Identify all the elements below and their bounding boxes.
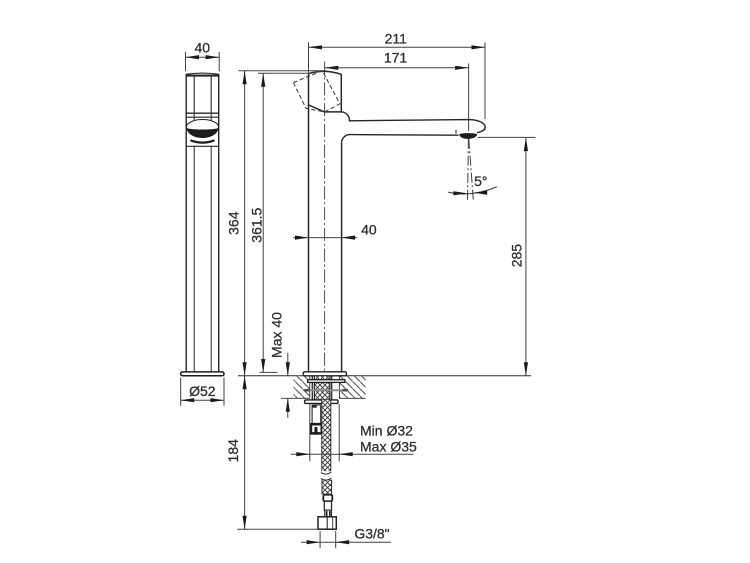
connection nut G3/8: [318, 517, 336, 529]
dim hole arrow right: [339, 452, 353, 456]
dim 364 arrow top: [243, 71, 247, 85]
grub screw tick right: [343, 389, 348, 392]
dim Max40 arrow up: [286, 398, 290, 412]
slot bar left: [326, 511, 328, 516]
svg-text:171: 171: [384, 50, 408, 66]
threaded shank with braid pattern: [315, 376, 330, 400]
shank tube right wall: [330, 376, 332, 400]
dim hole extension line right: [338, 404, 340, 461]
dim 364 arrow bottom: [243, 362, 247, 376]
hole edge left: [309, 376, 311, 398]
grub screw tick left: [304, 389, 310, 392]
dim 364 line: [244, 71, 246, 376]
grub screw line: [305, 389, 347, 391]
dim Max40 arrow down: [286, 362, 290, 376]
dim 171 arrow right: [455, 66, 469, 70]
deck surface line: [238, 375, 531, 377]
countertop bottom line left: [281, 397, 310, 399]
dim Ø52 line: [181, 399, 224, 401]
svg-text:361.5: 361.5: [248, 207, 264, 242]
svg-text:211: 211: [385, 30, 408, 46]
dim G38 arrow right: [336, 540, 350, 544]
spray axis tilted 5 deg line: [469, 139, 474, 202]
gasket washer under deck: [308, 380, 345, 383]
dim 285 line: [525, 138, 527, 376]
dim Ø52 arrow left: [181, 398, 195, 402]
collar bottom joint line (left view): [186, 145, 219, 147]
handle inner silhouette lines (left view): [194, 77, 211, 113]
aerator: [459, 133, 477, 139]
body left edge: [308, 105, 310, 372]
dim 184 bottom extension line: [237, 528, 318, 530]
handle outer edges (left view): [186, 74, 219, 120]
dim 40 extension lines: [186, 52, 220, 71]
dim 211 left extension line: [308, 42, 310, 72]
body right edge: [341, 143, 343, 372]
svg-text:Min Ø32: Min Ø32: [360, 423, 413, 439]
dim 184 arrow top: [243, 376, 247, 390]
dim 211 line: [309, 46, 486, 48]
dim 171 right extension line (aerator axis): [468, 63, 470, 131]
dim G38 line: [301, 541, 391, 543]
slot bar right: [329, 511, 331, 516]
handle top face line (left view): [186, 75, 219, 77]
svg-text:5°: 5°: [474, 173, 487, 189]
handle dome top (left view): [186, 73, 219, 74]
collar inner verticals (left view): [194, 113, 211, 121]
hose nipple: [324, 501, 331, 510]
check valve inner bar: [314, 427, 317, 433]
body inner silhouette lines (left view): [194, 146, 211, 371]
dim hole arrow left: [296, 452, 310, 456]
dim Ø52 extension lines: [181, 378, 224, 406]
mounting nut: [305, 400, 338, 404]
svg-text:G3/8": G3/8": [354, 526, 389, 542]
connection nut facet lines: [326, 517, 328, 529]
dim 285 top extension line: [478, 136, 536, 138]
dim 171 line: [325, 67, 469, 69]
dim Max40 upper shaft: [287, 353, 289, 376]
dim 40 body line: [293, 237, 357, 239]
hole edge right: [338, 376, 340, 398]
svg-text:Max 40: Max 40: [269, 312, 285, 358]
dim 184 arrow bottom: [243, 516, 247, 530]
dim 171 arrow left: [325, 66, 339, 70]
countertop hatch right: [339, 376, 365, 398]
dim 184 line: [244, 376, 246, 530]
aerator tick: [455, 130, 457, 134]
hose ferrule: [323, 495, 332, 502]
dim 40 body arrow left: [295, 236, 309, 240]
dim 361.5 arrow bottom: [261, 359, 265, 373]
dim G38 arrow left: [307, 540, 321, 544]
body outer edges (left view): [186, 120, 219, 372]
spray axis vertical dash line: [467, 139, 470, 202]
svg-text:285: 285: [508, 244, 524, 268]
svg-text:184: 184: [225, 439, 241, 463]
dim 40 line (left view): [186, 56, 220, 58]
pull rod housing: [312, 405, 321, 424]
dim 211 right extension line (spout end): [484, 42, 486, 130]
check valve block: [311, 424, 322, 433]
dim 285 arrow top: [524, 138, 528, 152]
dim 361.5 bottom extension line: [260, 371, 278, 373]
handle bottom line (left view): [186, 112, 219, 114]
base plate (left view): [181, 372, 224, 376]
base plate (main view): [303, 372, 346, 376]
svg-text:40: 40: [195, 39, 211, 55]
5 deg arc: [448, 187, 497, 194]
hose slotted section: [325, 510, 332, 517]
dim 40 arrow left: [186, 55, 200, 59]
dim 40 body arrow right: [342, 236, 356, 240]
dim 361.5 line: [262, 73, 264, 372]
countertop bottom line right: [339, 397, 365, 399]
5 deg arc arrow right: [474, 191, 488, 195]
spout underside: [342, 135, 459, 143]
svg-text:40: 40: [361, 222, 377, 238]
svg-text:Ø52: Ø52: [189, 383, 216, 399]
dim Max40 lower shaft: [287, 398, 289, 418]
countertop hatch left: [294, 376, 310, 398]
dim 285 arrow bottom: [524, 362, 528, 376]
dim 364 top extension line: [238, 70, 326, 72]
dim 361.5 arrow top: [261, 73, 265, 87]
dim 211 arrow right: [472, 45, 486, 49]
svg-text:Max Ø35: Max Ø35: [360, 439, 417, 455]
dim G38 extension lines: [320, 531, 336, 548]
braided hose upper: [322, 400, 331, 471]
handle solid outline: [309, 71, 342, 112]
dim 211 arrow left: [309, 45, 323, 49]
pull rod housing top notch: [312, 405, 317, 408]
5 deg arc arrow left: [453, 191, 467, 195]
body centerline: [324, 62, 326, 376]
dim 40 arrow right: [206, 55, 220, 59]
dim hole line: [291, 453, 414, 455]
shank tube left wall: [312, 376, 314, 400]
collar ellipse (left view): [186, 120, 218, 135]
hose break marks: [321, 472, 331, 480]
braided hose lower: [322, 480, 332, 495]
spout top edge: [341, 112, 485, 133]
dim hole extension line left: [309, 404, 311, 461]
collar top line (left view): [186, 116, 219, 118]
collar dark crescent (left view): [187, 128, 219, 138]
collar under-shadow arc (left view): [191, 140, 215, 142]
dim Ø52 arrow right: [211, 398, 225, 402]
dim 361.5 top extension line: [258, 72, 311, 74]
svg-text:364: 364: [226, 211, 242, 235]
handle dashed rotated position: [293, 71, 339, 112]
